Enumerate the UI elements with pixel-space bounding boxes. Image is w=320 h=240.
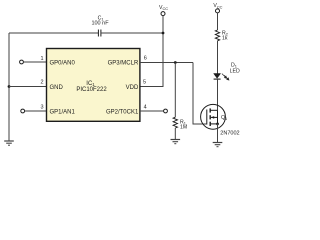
ground (left rail) xyxy=(4,141,14,145)
Q1 gate bar xyxy=(206,110,208,125)
svg-text:100 nF: 100 nF xyxy=(91,21,109,27)
wire Vcc to R2 xyxy=(217,13,219,30)
wire top horizontal left segment (node to capacitor) xyxy=(9,32,98,34)
svg-text:Q1: Q1 xyxy=(221,115,227,121)
junction dot (GND pin 2 to left rail) xyxy=(8,85,11,88)
wire pin 2 (GND) xyxy=(9,86,47,88)
transistor Q1 2N7002 body circle xyxy=(201,104,226,129)
wire capacitor to Vcc node xyxy=(101,32,163,34)
node terminal pin 4 (open circle) xyxy=(164,109,168,113)
svg-text:2N7002: 2N7002 xyxy=(220,131,239,137)
diode D1 cathode bar xyxy=(214,78,221,80)
wire R1 top xyxy=(174,63,176,118)
wire R1 bottom xyxy=(174,128,176,140)
wire LED to MOSFET drain xyxy=(217,79,219,110)
resistor R2 xyxy=(215,30,219,41)
svg-text:GP0/AN0: GP0/AN0 xyxy=(50,60,76,66)
junction dot (source/body) xyxy=(216,123,219,126)
wire pin 4 (T0CK1) xyxy=(140,110,164,112)
wire pin 6 (MCLR) to gate branch xyxy=(140,62,193,64)
svg-text:1: 1 xyxy=(41,56,44,62)
IC IC1 PIC10F222 body xyxy=(47,49,140,122)
Q1 drain lead xyxy=(210,109,217,111)
svg-text:3: 3 xyxy=(41,105,44,111)
svg-text:1k: 1k xyxy=(222,36,228,42)
Q1 channel segments xyxy=(209,108,211,126)
svg-text:2: 2 xyxy=(41,80,44,86)
ground (under R1) xyxy=(171,140,181,144)
node terminal pin 1 (open circle) xyxy=(20,60,24,64)
svg-text:LED: LED xyxy=(230,69,240,75)
wire R2 to LED xyxy=(217,41,219,74)
svg-text:GP1/AN1: GP1/AN1 xyxy=(50,109,76,115)
wire Vcc down to VDD pin 5 xyxy=(140,16,163,87)
svg-text:VDD: VDD xyxy=(126,85,139,91)
svg-text:VCC: VCC xyxy=(213,3,222,9)
svg-text:VCC: VCC xyxy=(159,5,168,11)
Q1 internal vertical (drain-body-source) xyxy=(217,110,219,124)
svg-text:GP3/MCLR: GP3/MCLR xyxy=(108,60,139,66)
wire gate branch (MCLR to MOSFET gate) xyxy=(193,63,207,125)
power Vcc (right) xyxy=(213,3,222,13)
wire left vertical rail xyxy=(8,33,10,141)
wire source to ground xyxy=(217,124,219,143)
junction dot (MCLR line to R1) xyxy=(174,61,177,64)
svg-text:4: 4 xyxy=(144,104,147,110)
svg-text:GP2/T0CK1: GP2/T0CK1 xyxy=(106,109,139,115)
wire pin 3 xyxy=(25,110,47,112)
svg-text:1M: 1M xyxy=(180,124,187,130)
node terminal pin 3 (open circle) xyxy=(21,109,25,113)
Q1 source lead xyxy=(210,123,218,125)
resistor R1 xyxy=(173,117,177,128)
capacitor C1 plates xyxy=(98,30,101,37)
ground (under Q1) xyxy=(213,143,223,147)
diode D1 LED triangle xyxy=(214,74,221,79)
Q1 body lead with arrow xyxy=(211,116,218,118)
svg-text:PIC10F222: PIC10F222 xyxy=(76,87,107,93)
LED emission arrows xyxy=(222,74,229,80)
svg-text:GND: GND xyxy=(50,85,64,91)
power Vcc (left) xyxy=(159,5,168,16)
wire pin 1 xyxy=(23,61,46,63)
junction dot (cap wire to Vcc line) xyxy=(162,32,165,35)
svg-text:6: 6 xyxy=(144,56,147,62)
svg-text:5: 5 xyxy=(143,80,146,86)
